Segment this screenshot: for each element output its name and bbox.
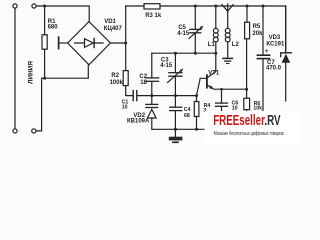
capacitor C4 plates [170,106,182,108]
wire lower return y78 [42,65,89,78]
variable capacitor C3 plates [169,72,182,74]
wire from T4 up [36,78,42,131]
ground main bars [169,137,183,141]
svg-text:470.0: 470.0 [266,66,282,72]
terminal top T2 [32,4,36,8]
varicap VD2 triangle [148,109,157,118]
terminal top-left T1 [13,4,17,8]
transistor VT1 emitter [207,85,213,89]
svg-text:10k: 10k [253,106,262,112]
junction dots [43,5,46,8]
svg-text:L1: L1 [208,42,216,48]
wire C2/VD2 column [151,53,153,77]
resistor R4 body [194,102,199,117]
svg-text:20k: 20k [252,31,263,37]
capacitor C5 column [194,6,196,29]
variable capacitor C3 arrow [168,69,183,82]
wire top rail left [36,6,89,22]
svg-text:КС191: КС191 [266,42,285,48]
resistor R1 body [42,35,47,49]
svg-text:10: 10 [122,104,128,110]
resistor R3 body [144,4,160,9]
wire top rail to right corner [160,6,286,53]
wire bar to bridge [59,42,68,44]
svg-text:R3 1k: R3 1k [145,13,162,19]
svg-text:4-15: 4-15 [160,63,173,69]
varicap VD2 plates [146,103,158,105]
svg-text:100k: 100k [110,80,124,86]
svg-text:VT1: VT1 [208,71,220,77]
terminal bottom-left T3 [13,129,17,133]
svg-text:FREEseller.RV: FREEseller.RV [213,113,281,129]
resistor R5 [246,6,248,22]
svg-text:VD3: VD3 [269,35,281,41]
svg-text:R2: R2 [111,73,119,79]
variable capacitor C5 arrow [189,27,202,39]
ground main [174,129,176,136]
ground under L2 [223,57,232,59]
watermark white box [205,111,301,145]
svg-text:ЛИНИЯ: ЛИНИЯ [27,61,34,84]
wire VT1 base lead [197,78,207,95]
variable capacitor C5 plates [190,28,201,30]
wire emitter to R5 column [213,88,246,90]
zener VD3 [285,6,287,53]
svg-text:КЦ407: КЦ407 [104,26,123,32]
wire C4 to rail [174,111,176,130]
antenna [227,11,229,20]
svg-text:680: 680 [48,24,59,30]
resistor R2 body [123,71,128,86]
wire y96 bias line [152,95,197,97]
svg-text:L2: L2 [232,42,240,48]
transistor VT1 collector [207,53,216,78]
wire top rail right [126,5,144,7]
inductor L2 [227,21,229,29]
wire C1 to VD2 column [137,95,152,97]
svg-text:4-15: 4-15 [177,31,190,37]
wire VD2 to bottom rail [152,118,207,129]
svg-text:18: 18 [140,80,147,86]
capacitor C2 plates [146,77,159,79]
inductor L1 [215,6,217,28]
svg-text:VD1: VD1 [104,19,116,25]
svg-text:C2: C2 [139,74,147,80]
resistor R1 leads [44,6,46,35]
wire C3 column top [174,53,176,72]
node bar at bridge input [58,37,60,48]
resistor R6 [244,98,250,110]
wire y53 oscillator bottom [152,52,216,54]
wire bridge right [110,42,125,44]
svg-text:R5: R5 [253,24,261,30]
diode bridge VD1 diamond [68,22,111,65]
svg-text:68: 68 [184,113,190,119]
terminal bottom T4 [32,129,36,133]
svg-text:+: + [265,48,269,55]
wire column x126 top [125,6,127,71]
svg-text:10: 10 [232,105,238,111]
capacitor C1 plates [132,91,134,101]
wire R2 bottom corner [126,86,134,96]
wire C3 to C4 [174,76,176,107]
wire R4 to rail [196,117,198,130]
capacitor C6 [221,89,223,103]
transistor VT1 base bar [206,75,208,87]
svg-text:КВ109А: КВ109А [127,119,150,125]
diode inside bridge [75,42,104,44]
wire left line vertical [14,8,16,128]
svg-text:Магазин бесплатных цифровых то: Магазин бесплатных цифровых товаров [214,131,284,137]
capacitor C7 [262,6,264,55]
